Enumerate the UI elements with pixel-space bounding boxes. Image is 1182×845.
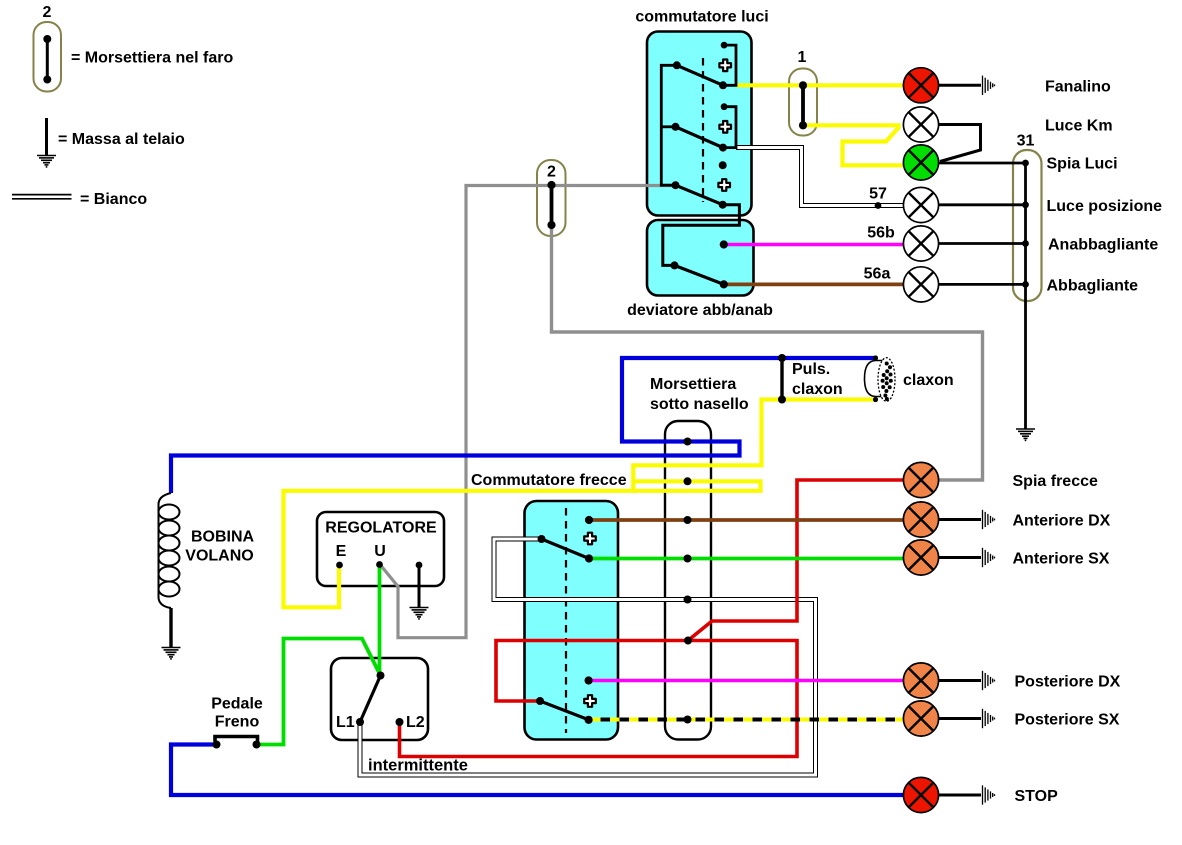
- svg-text:Posteriore DX: Posteriore DX: [1015, 674, 1121, 691]
- black wire: Luce Km to Spia Luci: [939, 125, 981, 162]
- commutatore luci star 1: [719, 60, 731, 72]
- regolatore pin U dot: [376, 561, 383, 568]
- morsettiera terminal dot on red wire: [684, 637, 692, 645]
- Posteriore SX ground stub: [939, 717, 982, 720]
- green wire net: pedale freno to intermittente pivot: [258, 639, 380, 745]
- red wire branch: junction to Spia frecce lamp: [688, 480, 903, 641]
- magenta wire: frecce switch to Posteriore DX lamp: [592, 679, 904, 683]
- lamp Spia frecce: [903, 462, 938, 497]
- connector pill 31: [1013, 150, 1042, 301]
- yellow-black dashed wire: frecce switch to Posteriore SX lamp: [591, 718, 904, 722]
- blue wire net: bobina top feed to claxon: [171, 358, 877, 493]
- svg-text:claxon: claxon: [792, 381, 843, 398]
- grey wire net A: regolatore U to pill 2 to commutatore luci: [380, 186, 674, 638]
- Anteriore DX ground stub: [939, 518, 982, 521]
- morsettiera terminal dot on yellow wire: [684, 477, 692, 485]
- Commutatore frecce dashed divider: [565, 508, 567, 733]
- svg-text:claxon: claxon: [903, 372, 954, 389]
- svg-text:sotto nasello: sotto nasello: [650, 396, 749, 413]
- lamp Anabbagliante: [903, 226, 938, 261]
- deviatore pivot dot: [671, 261, 679, 269]
- intermittente switch arm: [360, 676, 381, 723]
- bobina volano coil: [158, 493, 179, 608]
- svg-text:U: U: [374, 543, 386, 560]
- svg-text:31: 31: [1017, 133, 1035, 150]
- white/bianco wire net 1: commutatore luci sw2 to 57 node to Luce posizione (outline): [736, 148, 903, 206]
- commutatore luci sw3 left contact dot: [672, 181, 680, 189]
- lamp Posteriore DX: [903, 663, 938, 698]
- commutatore luci sw2 terminal dot: [721, 103, 728, 110]
- intermittente box: [331, 658, 428, 740]
- frecce lower switch terminal dot (magenta): [585, 676, 593, 684]
- svg-text:STOP: STOP: [1015, 788, 1059, 805]
- commutatore luci middle dot: [719, 161, 727, 169]
- claxon horn grille ellipse: [878, 358, 895, 402]
- commutatore luci sw1 terminal dot: [721, 42, 728, 49]
- pill 2 connector line: [550, 185, 554, 225]
- puls claxon junction dot on blue: [778, 354, 786, 362]
- connector pill 1: [789, 69, 817, 136]
- commutatore luci sw1 right contact dot: [719, 81, 727, 89]
- pill 31 bus line and terminals: [1024, 163, 1027, 429]
- lamp Posteriore SX: [903, 701, 938, 736]
- commutatore luci switch 1 arm: [677, 65, 723, 85]
- svg-text:Posteriore SX: Posteriore SX: [1015, 712, 1120, 729]
- lamp Luce Km: [903, 107, 938, 142]
- ground below pill 31: [1016, 429, 1035, 440]
- brown wire: frecce switch to Anteriore DX lamp: [592, 518, 904, 522]
- frecce upper left contact dot: [538, 535, 546, 543]
- svg-text:1: 1: [798, 49, 807, 66]
- commutatore luci sw2 right contact dot: [719, 144, 727, 152]
- puls claxon switch line: [780, 358, 783, 400]
- REGOLATORE box: [317, 512, 444, 586]
- svg-text:Puls.: Puls.: [792, 361, 830, 378]
- Morsettiera sotto nasello box: [665, 421, 711, 740]
- lamp Anteriore DX: [903, 502, 938, 537]
- svg-text:VOLANO: VOLANO: [185, 548, 253, 565]
- pill 1 connector line: [801, 85, 805, 125]
- yellow wire net: puls claxon to morsettiera and regolatore E: [284, 400, 877, 608]
- commutatore luci sw3 right contact dot: [719, 201, 727, 209]
- black wire: Luce posizione to pill 31: [939, 203, 1026, 206]
- frecce lower right contact dot (dashed wire): [585, 716, 593, 724]
- green wire net: regolatore U down to intermittente pivot: [378, 565, 382, 674]
- frecce upper switch terminal dot (brown): [585, 516, 593, 524]
- green wire: frecce switch to Anteriore SX lamp: [592, 557, 904, 561]
- black wire: Spia Luci to pill 31: [939, 162, 1026, 165]
- frecce upper star: [584, 533, 596, 545]
- regolatore ground symbol: [410, 608, 429, 619]
- node 57 junction dot: [875, 202, 882, 209]
- STOP ground stub: [939, 794, 982, 797]
- connector pill 2: [537, 160, 566, 236]
- commutatore luci switch 1 bracket wire: [723, 45, 736, 85]
- wire from commutatore luci sw3 to deviatore pivot: [663, 205, 740, 266]
- svg-text:57: 57: [869, 186, 887, 203]
- claxon grille dots: [881, 362, 893, 402]
- frecce lower star: [584, 695, 596, 707]
- claxon terminal dots: [873, 355, 878, 360]
- yellow wire: commutatore luci sw1 to Fanalino through pill 1: [736, 83, 904, 87]
- intermittente pivot dot: [377, 672, 385, 680]
- red wire net: L2 loop to frecce lower switch: [400, 641, 798, 757]
- frecce upper switch arm: [542, 539, 590, 559]
- regolatore pin E dot: [336, 562, 343, 569]
- regolatore ground wire: [418, 565, 421, 608]
- svg-text:Abbagliante: Abbagliante: [1047, 278, 1139, 295]
- svg-text:= Morsettiera nel faro: = Morsettiera nel faro: [71, 50, 234, 67]
- deviatore abb/anab box: [647, 220, 754, 296]
- lamp Fanalino: [903, 68, 938, 103]
- svg-text:56a: 56a: [864, 266, 891, 283]
- commutatore luci box: [647, 32, 752, 216]
- intermittente L2 dot: [396, 718, 404, 726]
- pedale freno contact dots: [213, 741, 221, 749]
- commutatore luci switch 3 arm: [676, 185, 723, 205]
- bobina ground symbol: [162, 648, 181, 659]
- svg-text:L1: L1: [336, 714, 355, 731]
- svg-text:Freno: Freno: [215, 714, 260, 731]
- grey wire net B: pill 2 bottom to Spia frecce lamp: [552, 225, 983, 480]
- black wire: Anabbagliante to pill 31: [939, 242, 1026, 245]
- svg-text:Fanalino: Fanalino: [1045, 79, 1111, 96]
- Commutatore frecce box: [525, 501, 619, 740]
- Fanalino ground stub: [939, 84, 982, 87]
- svg-text:Anabbagliante: Anabbagliante: [1048, 237, 1158, 254]
- svg-text:2: 2: [43, 4, 52, 21]
- morsettiera terminal dot on green wire: [684, 555, 692, 563]
- svg-text:Spia frecce: Spia frecce: [1013, 473, 1098, 490]
- legend bianco double line: [12, 194, 72, 196]
- morsettiera terminal dot on dashed wire: [684, 716, 692, 724]
- svg-text:deviatore abb/anab: deviatore abb/anab: [627, 302, 773, 319]
- Posteriore DX ground stub: [939, 679, 982, 682]
- commutatore luci star 3: [718, 179, 730, 191]
- brown wire: deviatore to Abbagliante lamp: [726, 282, 904, 286]
- yellow wire: pill 1 to Luce Km and branch to Spia Luci: [803, 123, 901, 127]
- claxon horn body: [865, 361, 885, 397]
- svg-text:E: E: [336, 543, 347, 560]
- frecce lower left contact dot (red): [536, 697, 544, 705]
- regolatore pin 3 dot: [416, 562, 423, 569]
- svg-text:56b: 56b: [867, 225, 895, 242]
- lamp Spia Luci: [903, 145, 938, 180]
- lamp Luce posizione: [903, 187, 938, 222]
- deviatore right contact dot (to Abbagliante): [720, 280, 728, 288]
- lamp Anteriore SX: [903, 540, 938, 575]
- svg-text:Luce Km: Luce Km: [1045, 118, 1113, 135]
- commutatore luci left rail wire: [661, 65, 677, 185]
- svg-text:Anteriore DX: Anteriore DX: [1013, 513, 1111, 530]
- lamp STOP: [903, 777, 938, 812]
- morsettiera terminal dot on white wire: [684, 596, 692, 604]
- deviatore terminal dot (to Anabbagliante): [720, 240, 728, 248]
- blue wire net: pedale freno to STOP lamp: [171, 745, 903, 796]
- morsettiera terminal dot on blue wire: [684, 438, 692, 446]
- svg-text:REGOLATORE: REGOLATORE: [325, 520, 437, 537]
- commutatore luci switch 2 bracket wire: [723, 107, 736, 148]
- svg-text:2: 2: [547, 164, 556, 181]
- svg-text:Morsettiera: Morsettiera: [650, 376, 736, 393]
- Anteriore SX ground stub: [939, 556, 982, 559]
- commutatore luci dashed divider: [702, 58, 704, 202]
- legend ground symbol: [45, 118, 48, 156]
- commutatore luci star 2: [719, 121, 731, 133]
- white/bianco wire net 2: frecce switch to intermittente L1 (outline): [360, 539, 816, 775]
- black wire: Abbagliante to pill 31: [939, 283, 1026, 286]
- svg-text:Pedale: Pedale: [211, 696, 263, 713]
- lamp Abbagliante: [903, 267, 938, 302]
- puls claxon junction dot on yellow: [778, 396, 786, 404]
- legend connector pill (Morsettiera nel faro symbol): [34, 22, 62, 92]
- svg-text:intermittente: intermittente: [368, 757, 468, 775]
- svg-text:L2: L2: [406, 714, 425, 731]
- commutatore luci switch 2 arm: [676, 127, 724, 148]
- svg-text:commutatore luci: commutatore luci: [635, 9, 768, 26]
- commutatore luci sw1 left contact dot: [673, 61, 681, 69]
- svg-text:BOBINA: BOBINA: [191, 529, 255, 546]
- morsettiera terminal dot on brown wire: [684, 516, 692, 524]
- svg-text:Anteriore SX: Anteriore SX: [1013, 551, 1110, 568]
- magenta wire: deviatore to Anabbagliante lamp: [726, 243, 904, 247]
- frecce upper right contact dot (green): [585, 554, 593, 562]
- pedale freno switch bar: [215, 737, 258, 742]
- svg-text:= Massa al telaio: = Massa al telaio: [58, 131, 185, 148]
- svg-text:Spia Luci: Spia Luci: [1047, 156, 1118, 173]
- bobina ground wire: [169, 608, 172, 648]
- commutatore luci sw2 left contact dot: [672, 123, 680, 131]
- svg-text:Luce posizione: Luce posizione: [1047, 198, 1163, 215]
- intermittente L1 dot: [356, 718, 364, 726]
- frecce lower switch arm: [540, 701, 589, 720]
- svg-text:Commutatore frecce: Commutatore frecce: [471, 472, 627, 489]
- svg-text:= Bianco: = Bianco: [80, 191, 147, 208]
- deviatore switch arm: [675, 265, 724, 284]
